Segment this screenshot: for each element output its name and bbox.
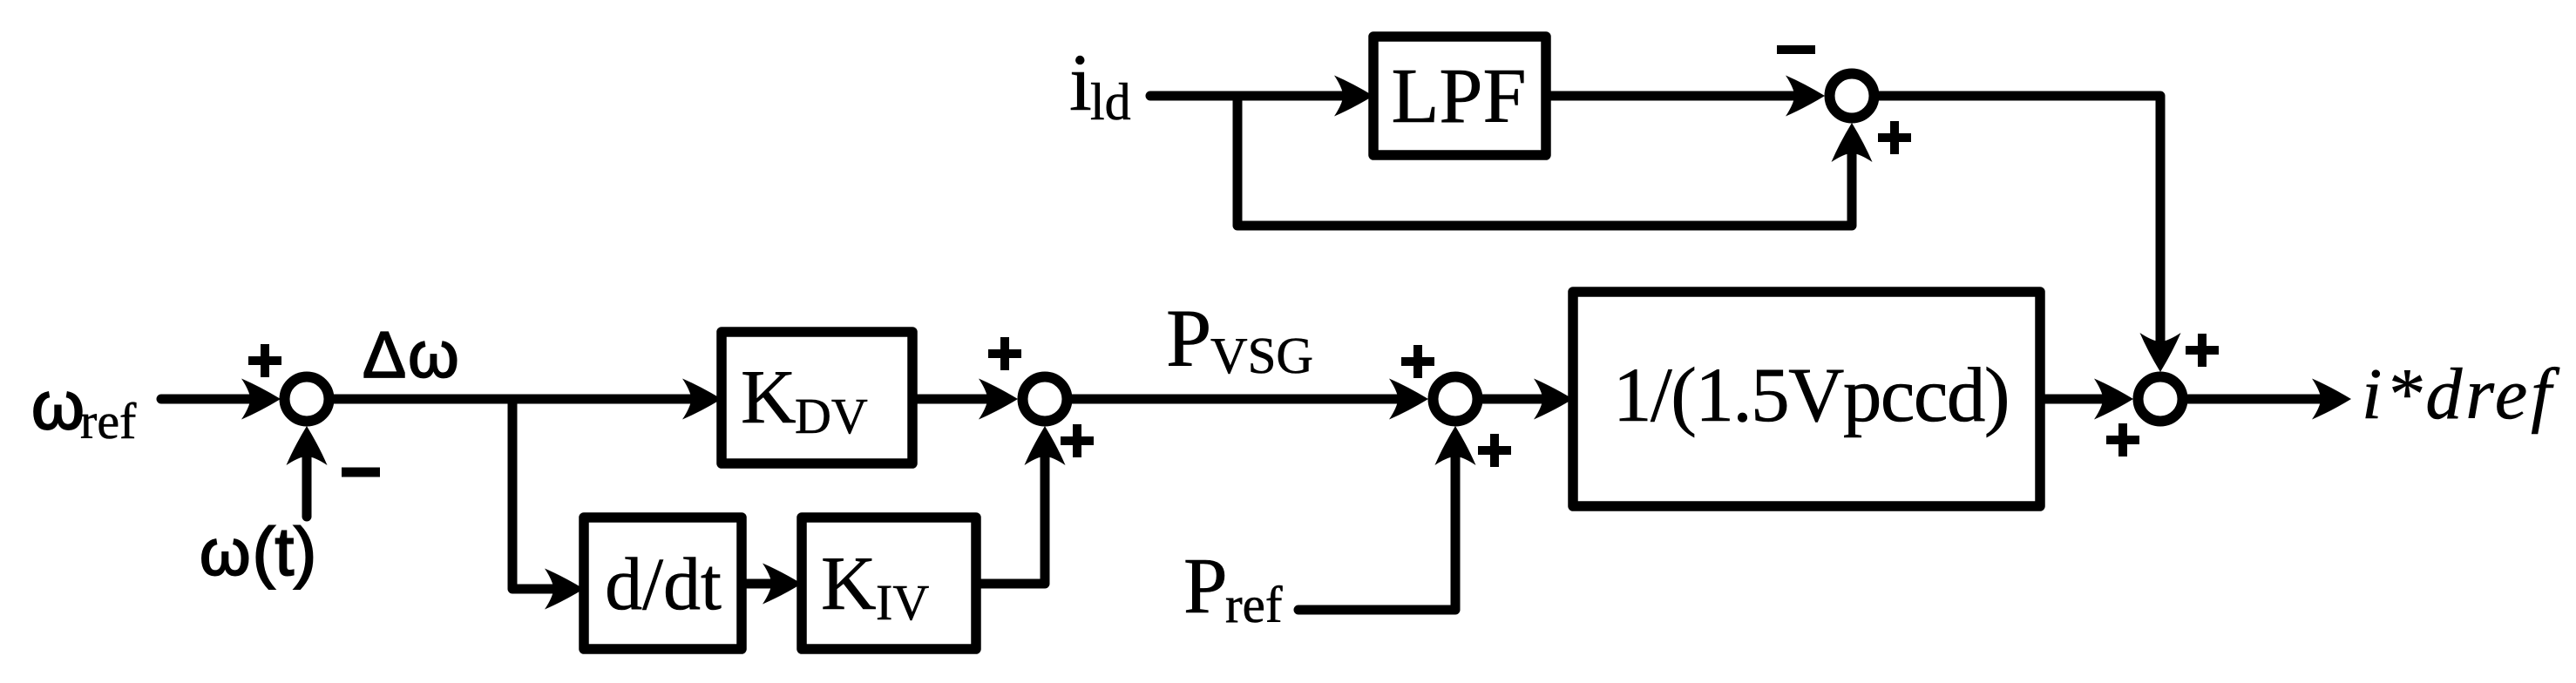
svg-text:d/dt: d/dt — [605, 542, 722, 626]
svg-text:i*dref: i*dref — [2362, 354, 2560, 435]
svg-text:i: i — [1069, 38, 1092, 128]
svg-text:VSG: VSG — [1210, 327, 1313, 384]
svg-text:K: K — [821, 542, 877, 626]
svg-text:ref: ref — [80, 393, 137, 450]
svg-text:ω(t): ω(t) — [200, 513, 316, 590]
svg-text:IV: IV — [876, 574, 929, 631]
svg-text:K: K — [741, 355, 797, 440]
svg-text:P: P — [1183, 542, 1228, 630]
svg-text:DV: DV — [795, 388, 868, 444]
svg-text:ω: ω — [31, 367, 85, 443]
svg-text:Δω: Δω — [363, 318, 459, 391]
svg-text:LPF: LPF — [1391, 53, 1526, 139]
svg-text:P: P — [1166, 294, 1211, 384]
svg-text:ref: ref — [1225, 576, 1283, 633]
svg-text:ld: ld — [1090, 73, 1131, 131]
svg-text:1/(1.5Vpccd): 1/(1.5Vpccd) — [1613, 353, 2009, 438]
